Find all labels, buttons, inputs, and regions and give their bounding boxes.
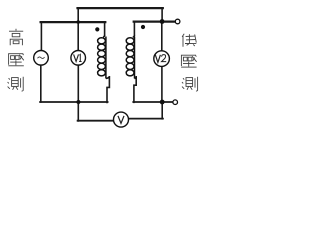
wire LV top	[134, 21, 176, 23]
wire V2 top lead	[161, 22, 163, 52]
wire secondary top lead	[133, 22, 135, 36]
wire V meter left	[78, 120, 114, 122]
AC source	[34, 51, 49, 66]
voltmeter V1	[71, 51, 86, 66]
wire V2 bottom lead	[161, 66, 163, 102]
transformer secondary winding L2	[126, 35, 136, 79]
wire V1 bottom lead	[77, 65, 79, 121]
terminal bottom-right	[173, 100, 178, 105]
wire primary bottom tail	[107, 77, 109, 103]
wire source top lead	[40, 22, 42, 51]
wire A HV bottom	[40, 101, 108, 103]
voltmeter V	[114, 112, 129, 127]
wire V1 top lead	[77, 8, 79, 51]
label 壓 (voltage)	[8, 54, 23, 66]
wire top jumper	[78, 7, 163, 9]
voltmeter V2	[154, 51, 170, 67]
wire secondary bottom tail	[134, 77, 136, 103]
wire source bottom lead	[40, 65, 42, 102]
label 測 (measure)	[8, 77, 24, 91]
wire primary top lead	[104, 22, 106, 35]
wire V meter right	[128, 118, 163, 120]
polarity dot secondary	[141, 25, 145, 29]
terminal top-right	[175, 19, 180, 24]
wire junction drop to V meter	[161, 102, 163, 119]
wire LV bottom	[133, 101, 173, 103]
transformer primary winding L1	[98, 35, 110, 79]
label 壓 (voltage) right	[181, 55, 197, 67]
junction bottom-right	[160, 100, 165, 105]
label 測 (measure) right	[182, 77, 198, 91]
junction V1 bottom	[76, 100, 80, 104]
junction top-right	[160, 19, 165, 24]
label 高 (high)	[9, 29, 23, 46]
wire HV top	[41, 21, 106, 23]
junction V1 top	[76, 20, 80, 24]
label 低 (low)	[182, 34, 196, 47]
wire jumper drop right	[161, 8, 163, 22]
polarity dot primary	[95, 27, 99, 31]
